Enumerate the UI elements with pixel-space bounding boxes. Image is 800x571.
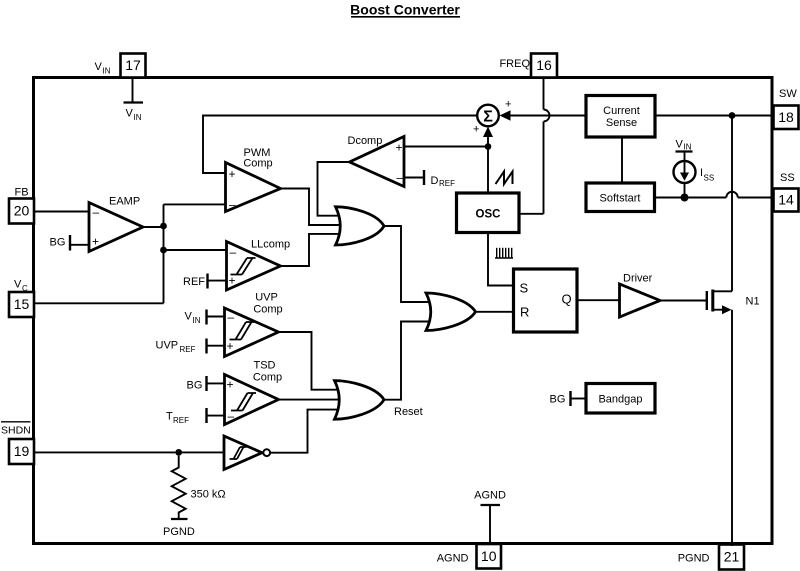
latch SR: [514, 269, 578, 332]
block Softstart: [586, 183, 655, 212]
current source ISS: [674, 153, 696, 198]
svg-text:BG: BG: [187, 380, 203, 392]
svg-text:Reset: Reset: [394, 406, 423, 418]
sawtooth glyph: [496, 172, 513, 185]
svg-text:UVP: UVP: [156, 340, 179, 352]
resistor 350k: [172, 456, 186, 518]
block OSC: [457, 193, 520, 233]
pin 14 SS: [774, 189, 799, 212]
wire OSC node to sigma with arrow: [473, 124, 493, 147]
VIN supply bar for ISS: [676, 139, 693, 152]
wire UVP output to OR3: [279, 332, 344, 390]
svg-text:–: –: [397, 171, 404, 185]
svg-text:BG: BG: [50, 237, 66, 249]
op-amp EAMP: [89, 203, 143, 252]
clock pulses glyph: [495, 248, 513, 258]
svg-text:OSC: OSC: [476, 209, 501, 221]
AGND internal stub: [474, 489, 506, 544]
svg-text:–: –: [93, 205, 100, 219]
node EAMP output junction: [160, 223, 167, 230]
svg-text:20: 20: [14, 203, 30, 219]
wire OR2 output to latch R: [476, 311, 514, 313]
label UVP Comp: [253, 292, 282, 316]
pin 18 SW: [774, 106, 799, 130]
wire SHDN pin to schmitt input: [34, 451, 224, 453]
wire FREQ pin to OSC with hop over current-sense line: [519, 78, 550, 214]
svg-text:+: +: [229, 274, 236, 288]
svg-text:N1: N1: [746, 296, 760, 308]
svg-text:+: +: [473, 124, 479, 136]
wire softstart to SS pin with hop over N1 drain: [655, 192, 774, 198]
svg-text:PGND: PGND: [678, 553, 710, 565]
wire OR1 output to OR2 upper input: [384, 226, 430, 302]
svg-text:REF: REF: [439, 179, 455, 188]
label ISS: [700, 167, 714, 183]
svg-text:V: V: [14, 279, 22, 291]
node SHDN resistor junction: [175, 449, 182, 456]
svg-text:FREQ: FREQ: [499, 58, 530, 70]
hysteresis glyph schmitt: [230, 447, 247, 459]
svg-text:Dcomp: Dcomp: [348, 135, 383, 147]
svg-text:EAMP: EAMP: [109, 196, 140, 208]
wire current sense to sigma with arrow: [500, 99, 587, 121]
svg-text:AGND: AGND: [437, 553, 469, 565]
wire LLcomp output to OR1: [281, 234, 346, 266]
svg-text:BG: BG: [550, 394, 566, 406]
wire bus to LLcomp inverting input: [164, 249, 227, 251]
svg-text:–: –: [229, 198, 236, 212]
svg-text:REF: REF: [183, 276, 205, 288]
label SHDN (active low): [1, 422, 31, 437]
wire driver to N1 gate: [660, 300, 706, 302]
wire FB pin to EAMP inverting input: [34, 211, 89, 213]
svg-text:350 kΩ: 350 kΩ: [191, 489, 226, 501]
svg-text:AGND: AGND: [474, 489, 506, 501]
title Boost Converter: [350, 2, 460, 18]
wire VC pin to bus: [34, 302, 164, 304]
svg-text:T: T: [166, 411, 173, 423]
block Bandgap: [586, 384, 655, 414]
summing node sigma: [477, 105, 499, 127]
label VC: [14, 279, 28, 294]
comparator LLcomp: [227, 242, 281, 291]
label PWM Comp: [243, 147, 272, 170]
svg-text:+: +: [92, 235, 99, 249]
TREF source tick at TSD: [166, 408, 225, 425]
BG source tick at EAMP: [50, 235, 90, 251]
svg-text:17: 17: [125, 57, 141, 73]
UVPREF source tick at UVP: [156, 339, 225, 355]
svg-text:+: +: [227, 339, 234, 353]
svg-text:IN: IN: [684, 143, 692, 152]
chip boundary: [34, 78, 773, 544]
wire schmitt output to OR3: [270, 410, 343, 453]
wire junction to OSC: [487, 147, 489, 194]
svg-text:V: V: [126, 108, 134, 120]
svg-text:Bandgap: Bandgap: [598, 394, 642, 406]
svg-text:C: C: [22, 284, 28, 293]
hysteresis glyph LLcomp: [231, 258, 256, 275]
svg-text:Sense: Sense: [606, 117, 637, 129]
svg-text:IN: IN: [193, 316, 201, 325]
svg-text:SS: SS: [704, 174, 715, 183]
svg-text:–: –: [228, 310, 235, 324]
BG source tick at Bandgap: [550, 391, 587, 406]
svg-text:IN: IN: [103, 67, 111, 76]
svg-text:REF: REF: [173, 416, 189, 425]
svg-text:–: –: [230, 245, 237, 259]
wire Dcomp plus input from OSC node: [404, 146, 488, 148]
node OSC/Dcomp junction: [485, 143, 492, 150]
svg-text:V: V: [185, 311, 193, 323]
schmitt trigger inverter: [224, 436, 270, 470]
svg-text:Boost Converter: Boost Converter: [350, 2, 460, 18]
svg-text:10: 10: [481, 548, 497, 564]
svg-text:19: 19: [14, 443, 30, 459]
transistor N1: [707, 290, 732, 315]
svg-text:21: 21: [724, 549, 740, 565]
pin 19 SHDN: [9, 439, 34, 464]
wire N1 source to PGND pin: [731, 310, 733, 546]
svg-text:16: 16: [536, 57, 552, 73]
or-gate OR2 (to latch R): [426, 293, 476, 331]
wire sigma output to PWM comp non-inverting input: [203, 116, 477, 174]
svg-text:14: 14: [778, 192, 794, 208]
label TSD Comp: [253, 360, 282, 384]
hysteresis glyph TSD: [231, 393, 256, 411]
svg-text:18: 18: [778, 109, 794, 125]
buffer Driver: [620, 284, 661, 317]
DREF source tick at Dcomp: [404, 170, 455, 188]
REF source tick at LLcomp: [183, 274, 227, 289]
pin 20 FB: [9, 199, 34, 224]
svg-text:Current: Current: [603, 105, 640, 117]
comparator TSD Comp: [225, 375, 279, 425]
label VIN (pin 17): [95, 61, 111, 76]
svg-text:R: R: [520, 305, 529, 320]
ground PGND (resistor): [163, 519, 195, 538]
wire EAMP output bus vertical: [163, 204, 165, 303]
svg-text:UVP: UVP: [255, 292, 278, 304]
svg-text:S: S: [520, 281, 529, 296]
svg-text:IN: IN: [134, 113, 142, 122]
svg-text:Comp: Comp: [253, 372, 282, 384]
svg-text:PGND: PGND: [163, 526, 195, 538]
node ISS/softstart junction: [681, 194, 689, 202]
wire PWM comp output to OR1: [281, 189, 346, 226]
svg-text:+: +: [229, 167, 236, 181]
svg-text:+: +: [396, 141, 403, 155]
pin 16 FREQ: [531, 54, 557, 78]
svg-text:Q: Q: [562, 292, 572, 307]
svg-text:15: 15: [14, 296, 30, 312]
comparator Dcomp (points left): [350, 137, 405, 187]
comparator UVP Comp: [225, 308, 279, 357]
comparator PWM Comp: [226, 163, 281, 212]
wire Dcomp output to OR1: [318, 162, 350, 216]
svg-text:Comp: Comp: [243, 158, 272, 170]
wire current sense to softstart: [621, 137, 623, 183]
wire current sense to SW pin: [655, 115, 774, 117]
or-gate OR1 (PWM/LL/Dcomp): [336, 207, 385, 245]
pin 15 VC: [9, 292, 34, 317]
wire latch Q to driver: [577, 299, 620, 301]
svg-text:Softstart: Softstart: [600, 193, 641, 205]
svg-text:TSD: TSD: [254, 360, 276, 372]
wire N1 drain to SW node: [731, 116, 733, 292]
BG source tick at TSD: [187, 376, 225, 392]
wire OSC to latch S input: [488, 233, 514, 286]
wire OR3 output to OR2 lower input: [384, 322, 430, 400]
svg-text:D: D: [431, 175, 439, 187]
VIN source tick at UVP: [185, 310, 225, 326]
VIN supply stub below pin 17: [124, 78, 144, 122]
wire TSD output to OR3: [279, 399, 344, 401]
svg-text:V: V: [676, 139, 684, 151]
svg-text:LLcomp: LLcomp: [251, 239, 290, 251]
svg-text:FB: FB: [15, 187, 29, 199]
block Current Sense: [586, 96, 655, 138]
pin 21 PGND: [719, 545, 744, 570]
pin 17 VIN: [121, 54, 146, 78]
svg-text:Σ: Σ: [483, 108, 493, 125]
or-gate OR3 (reset OR): [335, 381, 385, 420]
node LLcomp branch junction: [160, 247, 167, 254]
hysteresis glyph UVP: [230, 322, 255, 340]
node SW junction: [729, 112, 736, 119]
wire EAMP output: [143, 226, 164, 228]
svg-text:REF: REF: [180, 345, 196, 354]
svg-text:V: V: [95, 61, 103, 73]
svg-text:SS: SS: [780, 172, 795, 184]
svg-text:Comp: Comp: [253, 304, 282, 316]
svg-text:+: +: [505, 99, 511, 111]
wire bus to PWM comp inverting input: [164, 203, 226, 205]
pin 10 AGND: [477, 544, 502, 569]
svg-text:SW: SW: [779, 88, 797, 100]
svg-text:+: +: [227, 378, 234, 392]
svg-text:SHDN: SHDN: [1, 425, 31, 437]
svg-text:Driver: Driver: [623, 273, 653, 285]
